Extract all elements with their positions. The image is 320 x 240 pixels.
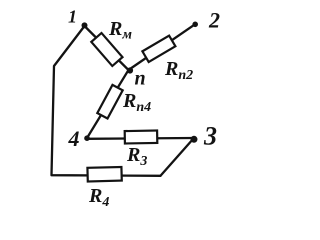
svg-text:2: 2 (208, 8, 220, 33)
svg-text:R3: R3 (126, 144, 147, 169)
svg-text:n: n (135, 68, 146, 90)
svg-text:R4: R4 (88, 185, 109, 210)
svg-text:3: 3 (203, 122, 217, 151)
svg-text:Rп4: Rп4 (122, 90, 151, 115)
svg-text:1: 1 (68, 7, 77, 27)
svg-text:Rп2: Rп2 (164, 58, 193, 83)
svg-text:Rм: Rм (108, 18, 132, 43)
svg-text:4: 4 (68, 126, 80, 151)
